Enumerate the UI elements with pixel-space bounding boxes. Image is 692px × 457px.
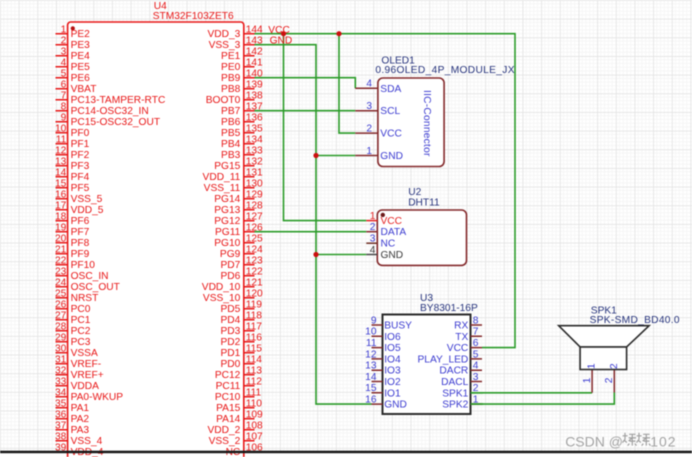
svg-text:PC0: PC0 <box>71 304 91 315</box>
svg-text:VDD_3: VDD_3 <box>207 29 240 40</box>
svg-text:PF7: PF7 <box>71 227 90 238</box>
svg-text:30: 30 <box>55 343 67 354</box>
svg-text:142: 142 <box>246 46 263 57</box>
svg-text:VREF+: VREF+ <box>71 370 104 381</box>
svg-text:IO4: IO4 <box>384 354 401 365</box>
svg-text:PF2: PF2 <box>71 150 90 161</box>
svg-text:VSS_2: VSS_2 <box>209 436 241 447</box>
svg-text:32: 32 <box>55 365 67 376</box>
svg-text:VDD_2: VDD_2 <box>207 425 240 436</box>
svg-text:PD3: PD3 <box>220 326 240 337</box>
svg-text:PD1: PD1 <box>220 348 240 359</box>
svg-text:BOOT0: BOOT0 <box>206 95 241 106</box>
svg-text:PC11: PC11 <box>216 381 241 392</box>
svg-text:113: 113 <box>246 365 263 376</box>
svg-text:PLAY_LED: PLAY_LED <box>418 354 469 365</box>
svg-text:SCL: SCL <box>380 106 400 117</box>
svg-text:28: 28 <box>55 321 67 332</box>
svg-text:PF9: PF9 <box>71 249 90 260</box>
svg-text:1: 1 <box>61 24 67 35</box>
svg-text:PA1: PA1 <box>71 403 90 414</box>
svg-text:U2: U2 <box>408 187 421 198</box>
svg-text:NC: NC <box>381 239 396 250</box>
svg-text:PA15: PA15 <box>216 403 240 414</box>
svg-text:PC10: PC10 <box>215 392 241 403</box>
svg-text:1: 1 <box>370 211 376 222</box>
svg-text:SDA: SDA <box>380 84 401 95</box>
svg-text:CSDN @: CSDN @ <box>565 433 623 449</box>
svg-text:107: 107 <box>246 431 263 442</box>
svg-text:VCC: VCC <box>268 25 290 36</box>
svg-text:11: 11 <box>56 134 67 145</box>
svg-text:2: 2 <box>604 377 615 383</box>
svg-text:PB5: PB5 <box>221 128 241 139</box>
svg-text:34: 34 <box>55 387 67 398</box>
svg-text:25: 25 <box>55 288 67 299</box>
svg-text:IO1: IO1 <box>384 388 401 399</box>
svg-text:110: 110 <box>246 398 263 409</box>
svg-text:3: 3 <box>61 46 67 57</box>
svg-text:143: 143 <box>246 35 263 46</box>
svg-text:109: 109 <box>246 409 263 420</box>
svg-text:DACL: DACL <box>441 377 469 388</box>
svg-text:144: 144 <box>246 24 263 35</box>
svg-text:PA14: PA14 <box>216 414 240 425</box>
svg-text:PG14: PG14 <box>214 194 240 205</box>
svg-text:20: 20 <box>55 233 67 244</box>
svg-text:3: 3 <box>366 101 372 112</box>
svg-text:PD7: PD7 <box>220 260 240 271</box>
svg-text:PB6: PB6 <box>221 117 241 128</box>
svg-text:120: 120 <box>246 288 263 299</box>
svg-text:VDD_11: VDD_11 <box>203 172 241 183</box>
svg-text:127: 127 <box>246 211 263 222</box>
svg-text:118: 118 <box>246 310 263 321</box>
svg-text:PD5: PD5 <box>220 304 240 315</box>
svg-text:2: 2 <box>609 363 620 369</box>
svg-text:13: 13 <box>55 156 67 167</box>
svg-text:4: 4 <box>370 245 376 256</box>
svg-text:PB3: PB3 <box>221 150 241 161</box>
svg-text:0.96OLED_4P_MODULE_JX: 0.96OLED_4P_MODULE_JX <box>375 65 514 76</box>
svg-text:3: 3 <box>370 234 376 245</box>
svg-text:136: 136 <box>246 112 263 123</box>
svg-text:IIC-Connector: IIC-Connector <box>421 90 432 157</box>
svg-text:VDD_5: VDD_5 <box>71 205 104 216</box>
svg-text:9: 9 <box>61 112 67 123</box>
svg-text:2: 2 <box>61 35 67 46</box>
svg-text:VSS_10: VSS_10 <box>203 293 241 304</box>
svg-text:27: 27 <box>55 310 67 321</box>
svg-text:BUSY: BUSY <box>384 321 412 332</box>
svg-text:PE5: PE5 <box>71 62 91 73</box>
svg-text:PF6: PF6 <box>71 216 90 227</box>
svg-text:PD4: PD4 <box>220 315 240 326</box>
svg-text:PE4: PE4 <box>71 51 91 62</box>
svg-text:PG10: PG10 <box>214 238 240 249</box>
svg-text:TX: TX <box>455 332 468 343</box>
svg-text:125: 125 <box>246 233 263 244</box>
svg-text:12: 12 <box>55 145 67 156</box>
svg-text:PF4: PF4 <box>71 172 90 183</box>
svg-text:17: 17 <box>55 200 67 211</box>
svg-text:VCC: VCC <box>447 343 469 354</box>
svg-text:OSC_OUT: OSC_OUT <box>71 282 120 293</box>
svg-text:PD2: PD2 <box>220 337 240 348</box>
svg-text:24: 24 <box>55 277 67 288</box>
svg-text:122: 122 <box>246 266 263 277</box>
svg-text:139: 139 <box>246 79 263 90</box>
svg-text:VSS_5: VSS_5 <box>71 194 103 205</box>
svg-text:VREF-: VREF- <box>71 359 102 370</box>
svg-text:117: 117 <box>246 321 263 332</box>
svg-text:PA0-WKUP: PA0-WKUP <box>71 392 124 403</box>
svg-text:140: 140 <box>246 68 263 79</box>
svg-text:BY8301-16P: BY8301-16P <box>420 303 478 314</box>
svg-text:36: 36 <box>55 409 67 420</box>
svg-text:IO2: IO2 <box>384 377 401 388</box>
svg-text:PB9: PB9 <box>221 73 241 84</box>
svg-text:15: 15 <box>55 178 67 189</box>
svg-text:PD0: PD0 <box>220 359 240 370</box>
svg-text:IO6: IO6 <box>384 332 401 343</box>
svg-text:7: 7 <box>61 90 67 101</box>
svg-text:18: 18 <box>55 211 67 222</box>
svg-text:4: 4 <box>61 57 67 68</box>
svg-text:STM32F103ZET6: STM32F103ZET6 <box>153 11 234 22</box>
svg-text:SPK1: SPK1 <box>442 388 468 399</box>
svg-text:IO5: IO5 <box>384 343 401 354</box>
svg-text:1: 1 <box>582 377 593 383</box>
svg-text:PD6: PD6 <box>220 271 240 282</box>
svg-text:NRST: NRST <box>71 293 99 304</box>
svg-text:1: 1 <box>366 146 372 157</box>
svg-text:GND: GND <box>270 35 293 46</box>
svg-text:22: 22 <box>55 255 67 266</box>
svg-text:8: 8 <box>61 101 67 112</box>
svg-text:PF8: PF8 <box>71 238 90 249</box>
svg-text:4: 4 <box>366 79 372 90</box>
svg-text:VBAT: VBAT <box>71 84 97 95</box>
svg-text:PC13-TAMPER-RTC: PC13-TAMPER-RTC <box>71 95 166 106</box>
svg-text:GND: GND <box>381 250 404 261</box>
svg-text:16: 16 <box>55 189 67 200</box>
svg-text:PC1: PC1 <box>71 315 91 326</box>
svg-text:PC2: PC2 <box>71 326 91 337</box>
svg-text:PG12: PG12 <box>214 216 240 227</box>
svg-text:PE1: PE1 <box>221 51 241 62</box>
svg-text:SPK2: SPK2 <box>442 400 468 411</box>
svg-text:GND: GND <box>384 400 407 411</box>
svg-text:PG9: PG9 <box>220 249 241 260</box>
svg-text:PF0: PF0 <box>71 128 90 139</box>
svg-text:VSS_11: VSS_11 <box>204 183 241 194</box>
svg-text:PC15-OSC32_OUT: PC15-OSC32_OUT <box>71 117 160 128</box>
svg-text:PG13: PG13 <box>214 205 240 216</box>
svg-text:135: 135 <box>246 123 263 134</box>
svg-text:DACR: DACR <box>439 366 468 377</box>
svg-text:130: 130 <box>246 178 263 189</box>
svg-text:VDDA: VDDA <box>71 381 100 392</box>
svg-text:138: 138 <box>246 90 263 101</box>
svg-text:RX: RX <box>454 321 468 332</box>
svg-text:DHT11: DHT11 <box>408 198 440 209</box>
svg-text:38: 38 <box>55 431 67 442</box>
svg-text:VSS_4: VSS_4 <box>71 436 103 447</box>
svg-text:14: 14 <box>55 167 67 178</box>
svg-text:1: 1 <box>587 363 598 369</box>
svg-text:29: 29 <box>55 332 67 343</box>
svg-text:PB4: PB4 <box>221 139 241 150</box>
svg-text:128: 128 <box>246 200 263 211</box>
svg-text:124: 124 <box>246 244 263 255</box>
svg-text:PA3: PA3 <box>71 425 90 436</box>
svg-text:PF10: PF10 <box>71 260 96 271</box>
svg-text:119: 119 <box>246 299 263 310</box>
svg-text:PB8: PB8 <box>221 84 241 95</box>
svg-text:2: 2 <box>370 222 376 233</box>
svg-text:10: 10 <box>55 123 67 134</box>
svg-text:132: 132 <box>246 156 263 167</box>
svg-text:PF1: PF1 <box>71 139 90 150</box>
svg-text:108: 108 <box>246 420 263 431</box>
svg-text:DATA: DATA <box>381 227 407 238</box>
svg-text:SPK-SMD_BD40.0: SPK-SMD_BD40.0 <box>590 315 680 326</box>
svg-text:PA2: PA2 <box>71 414 90 425</box>
svg-text:PE3: PE3 <box>71 40 91 51</box>
svg-text:23: 23 <box>55 266 67 277</box>
svg-text:115: 115 <box>246 343 263 354</box>
svg-text:111: 111 <box>246 387 262 398</box>
svg-text:26: 26 <box>55 299 67 310</box>
svg-text:116: 116 <box>246 332 263 343</box>
svg-text:PC3: PC3 <box>71 337 91 348</box>
svg-text:PF3: PF3 <box>71 161 90 172</box>
svg-text:121: 121 <box>246 277 263 288</box>
svg-text:134: 134 <box>246 134 263 145</box>
svg-text:131: 131 <box>246 167 263 178</box>
svg-text:102: 102 <box>650 433 676 449</box>
svg-text:VSS_3: VSS_3 <box>209 40 241 51</box>
svg-text:GND: GND <box>380 151 403 162</box>
svg-text:137: 137 <box>246 101 263 112</box>
svg-text:141: 141 <box>246 57 263 68</box>
svg-text:PE0: PE0 <box>221 62 241 73</box>
svg-text:35: 35 <box>55 398 67 409</box>
svg-text:21: 21 <box>55 244 67 255</box>
svg-text:VCC: VCC <box>381 216 403 227</box>
svg-text:PB7: PB7 <box>221 106 241 117</box>
svg-text:PC12: PC12 <box>215 370 241 381</box>
svg-text:112: 112 <box>246 376 263 387</box>
svg-text:PC14-OSC32_IN: PC14-OSC32_IN <box>71 106 149 117</box>
svg-text:PG15: PG15 <box>214 161 240 172</box>
svg-text:OSC_IN: OSC_IN <box>71 271 109 282</box>
svg-text:2: 2 <box>366 124 372 135</box>
svg-text:5: 5 <box>61 68 67 79</box>
svg-text:VCC: VCC <box>380 129 402 140</box>
svg-text:33: 33 <box>55 376 67 387</box>
svg-text:133: 133 <box>246 145 263 156</box>
svg-text:VDD_10: VDD_10 <box>202 282 241 293</box>
svg-text:PG11: PG11 <box>215 227 241 238</box>
svg-text:VSSA: VSSA <box>71 348 98 359</box>
svg-text:6: 6 <box>61 79 67 90</box>
svg-text:PF5: PF5 <box>71 183 90 194</box>
svg-text:129: 129 <box>246 189 263 200</box>
svg-text:PE2: PE2 <box>71 29 91 40</box>
svg-text:126: 126 <box>246 222 263 233</box>
svg-text:IO3: IO3 <box>384 366 401 377</box>
svg-text:37: 37 <box>55 420 67 431</box>
svg-text:PE6: PE6 <box>71 73 91 84</box>
svg-text:19: 19 <box>55 222 67 233</box>
svg-text:114: 114 <box>246 354 263 365</box>
svg-text:31: 31 <box>55 354 67 365</box>
svg-text:123: 123 <box>246 255 263 266</box>
